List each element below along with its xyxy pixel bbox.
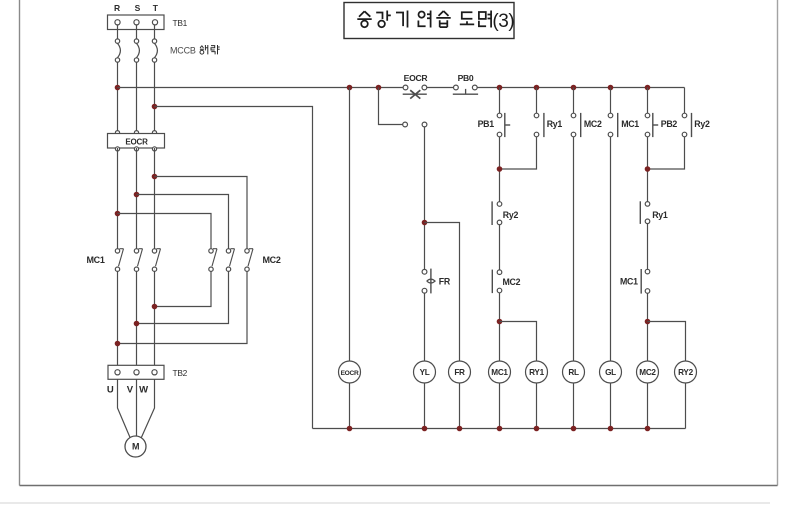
node EOCR bottom: [347, 426, 353, 432]
node Ry1 rung: [534, 85, 540, 91]
svg-text:RY2: RY2: [678, 368, 693, 377]
svg-text:R: R: [114, 3, 120, 13]
relay contact Ry1 (interlock): [645, 202, 650, 207]
relay contact MC1 aux: [608, 113, 613, 118]
node T tap to MC2: [152, 174, 158, 180]
relay EOCR block: [115, 131, 119, 135]
wire R tap to MC2 pole1: [118, 214, 212, 249]
node control bus tap on R: [115, 85, 121, 91]
page footer rule: [0, 502, 770, 504]
node FR bottom: [457, 426, 463, 432]
relay contact MC1 (interlock): [645, 269, 650, 274]
svg-text:MCCB: MCCB: [170, 46, 196, 56]
node PB1/Ry1 merge: [497, 166, 503, 172]
wire FR coil branch: [425, 223, 460, 362]
relay contact Ry2 (interlock): [497, 202, 502, 207]
relay coil EOCR: [339, 361, 361, 383]
title box: [344, 3, 514, 39]
svg-text:PB2: PB2: [661, 119, 678, 129]
wire MC2 coil to bus: [647, 383, 649, 429]
relay coil RY2: [675, 361, 697, 383]
wire Ry1 to MC1 contact: [647, 224, 649, 270]
svg-text:M: M: [132, 441, 139, 451]
contactor MC2 main contacts: [209, 249, 213, 253]
wire MC2 contact down: [499, 293, 501, 361]
svg-text:GL: GL: [605, 368, 616, 377]
wire MC1 coil to bus: [499, 383, 501, 429]
wire W to motor: [141, 379, 154, 438]
node GL rung: [608, 85, 614, 91]
page border right: [777, 0, 779, 486]
relay contact EOCR trip (NC with X): [403, 85, 408, 90]
node MC2 bottom: [645, 426, 651, 432]
node R join: [115, 341, 121, 347]
wire bus corner to Ry2 contact: [684, 88, 686, 114]
page border bottom: [20, 485, 778, 487]
wire V to motor: [136, 379, 138, 436]
svg-text:W: W: [139, 384, 148, 395]
wire RY1 branch: [500, 322, 537, 362]
wire RY2 coil to bus: [685, 383, 687, 429]
wire PB2 down: [647, 137, 649, 202]
svg-text:TB2: TB2: [173, 368, 188, 378]
lamp RL: [563, 361, 585, 383]
svg-text:MC1: MC1: [621, 119, 639, 129]
relay coil RY1: [526, 361, 548, 383]
node YL rung: [376, 85, 382, 91]
svg-text:TB1: TB1: [173, 18, 188, 28]
terminal pair: [403, 122, 408, 127]
node EOCR rung: [347, 85, 353, 91]
svg-text:FR: FR: [454, 368, 465, 377]
svg-text:EOCR: EOCR: [125, 137, 148, 146]
wire FR coil to bus: [459, 383, 461, 429]
wire to RL lamp: [573, 137, 575, 361]
wire U to motor: [118, 379, 131, 438]
wire S to TB2: [136, 271, 138, 365]
pushbutton PB0 (NC): [454, 85, 459, 90]
contactor MC1 main contacts: [115, 249, 119, 253]
wire control top bus: [118, 87, 403, 89]
wire Ry1 merge: [500, 137, 537, 169]
wire S phase down: [136, 62, 138, 133]
wire RY2 branch: [648, 322, 686, 362]
wire YL rung drop: [379, 88, 403, 125]
node YL bottom: [422, 426, 428, 432]
wire control return riser: [155, 107, 313, 429]
svg-text:FR: FR: [439, 277, 451, 287]
wire Ry2 to MC2 contact: [499, 225, 501, 270]
svg-text:EOCR: EOCR: [404, 73, 429, 83]
node FR coil tap: [422, 220, 428, 226]
wire MC1 contact down: [647, 293, 649, 361]
svg-text:YL: YL: [420, 368, 430, 377]
node S join: [134, 321, 140, 327]
svg-text:MC1: MC1: [86, 255, 104, 265]
svg-text:Ry2: Ry2: [694, 119, 710, 129]
wire bus to PB2: [647, 88, 649, 114]
relay contact MC2 (interlock): [497, 270, 502, 275]
node T tap for control return: [152, 104, 158, 110]
svg-text:RY1: RY1: [529, 368, 544, 377]
wire T below EOCR: [154, 148, 156, 249]
svg-text:MC1: MC1: [491, 368, 508, 377]
lamp GL: [600, 361, 622, 383]
node GL bottom: [608, 426, 614, 432]
node S tap to MC2: [134, 192, 140, 198]
wire TB1 to MCCB: [117, 25, 119, 39]
relay contact FR (flicker): [422, 269, 427, 274]
svg-text:(3): (3): [492, 11, 514, 32]
svg-text:Ry1: Ry1: [547, 119, 563, 129]
wire YL to bus: [424, 383, 426, 429]
contactor coil MC2: [637, 361, 659, 383]
wire PB1 down: [499, 137, 501, 202]
wire RY1 coil to bus: [536, 383, 538, 429]
wire T tap to MC2 pole3: [155, 177, 248, 249]
wire S below EOCR: [136, 148, 138, 249]
wire T to TB2: [154, 271, 156, 365]
wire EOCR coil to bus: [349, 383, 351, 429]
circuit breaker MCCB (omitted) poles: [115, 39, 119, 43]
svg-text:RL: RL: [568, 368, 579, 377]
wire T phase down: [154, 62, 156, 133]
wire GL to bus: [610, 383, 612, 429]
title text 승강기 연습 도면(3): [357, 11, 491, 28]
terminal block TB1: [108, 15, 165, 30]
wire MC2 pole3 return to R: [118, 271, 248, 343]
node PB2 rung: [645, 85, 651, 91]
lamp YL: [414, 361, 436, 383]
node MC1/RY1 split: [497, 319, 503, 325]
svg-text:MC2: MC2: [584, 119, 602, 129]
svg-text:MC2: MC2: [262, 255, 280, 265]
relay contact MC2 aux: [571, 113, 576, 118]
wire R to TB2: [117, 271, 119, 365]
wire EOCR rung: [349, 88, 351, 362]
svg-text:U: U: [107, 384, 114, 395]
svg-text:S: S: [135, 3, 141, 13]
wire R phase down: [117, 62, 119, 133]
wire RL to bus: [573, 383, 575, 429]
wire S tap to MC2 pole2: [137, 195, 229, 249]
svg-text:Ry2: Ry2: [503, 210, 519, 220]
wire control bottom bus: [313, 428, 686, 430]
svg-text:MC2: MC2: [639, 368, 656, 377]
motor M: [125, 436, 146, 457]
relay contact Ry2 (holding): [682, 113, 687, 118]
svg-text:V: V: [127, 384, 134, 395]
node PB1 rung: [497, 85, 503, 91]
relay coil FR: [449, 361, 471, 383]
wire to FR contact: [424, 127, 426, 269]
wire bus to MC2 aux: [573, 88, 575, 114]
node RL bottom: [571, 426, 577, 432]
node T join: [152, 304, 158, 310]
wire R below EOCR: [117, 148, 119, 249]
svg-text:MC1: MC1: [620, 276, 638, 286]
svg-text:Ry1: Ry1: [652, 210, 668, 220]
node MC2/RY2 split: [645, 319, 651, 325]
svg-text:PB1: PB1: [478, 119, 495, 129]
wire MC2 pole1 return to T: [155, 271, 212, 306]
wire Ry2 merge: [648, 137, 685, 169]
wire MC2 pole2 return to S: [137, 271, 229, 323]
pushbutton PB1 (NO): [497, 113, 502, 118]
MCCB label hangul 생략: [200, 45, 220, 54]
wire FR contact to YL coil: [424, 293, 426, 361]
terminal block TB2: [108, 365, 164, 379]
node MC1 bottom: [497, 426, 503, 432]
node PB2/Ry2 merge: [645, 166, 651, 172]
relay contact Ry1 (holding): [534, 113, 539, 118]
wire bus to Ry1 contact: [536, 88, 538, 114]
contactor coil MC1: [489, 361, 511, 383]
svg-text:PB0: PB0: [458, 73, 474, 83]
node RY1 bottom: [534, 426, 540, 432]
wire to GL lamp: [610, 137, 612, 361]
node RL rung: [571, 85, 577, 91]
wire bus to MC1 aux: [610, 88, 612, 114]
wire bus to PB1: [499, 88, 501, 114]
svg-text:EOCR: EOCR: [341, 370, 359, 377]
node R tap to MC2: [115, 211, 121, 217]
page border left: [19, 0, 21, 486]
svg-text:MC2: MC2: [503, 277, 521, 287]
pushbutton PB2 (NO): [645, 113, 650, 118]
